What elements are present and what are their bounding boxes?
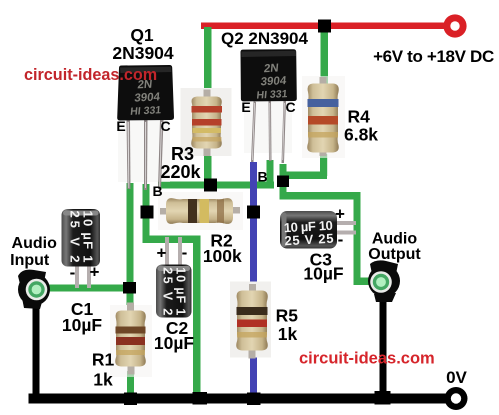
svg-text:+: +	[90, 263, 100, 282]
svg-text:circuit-ideas.com: circuit-ideas.com	[24, 66, 157, 84]
wire: +V supply rail (red)	[201, 23, 455, 30]
svg-text:Output: Output	[368, 246, 421, 263]
svg-text:6.8k: 6.8k	[344, 125, 378, 145]
wire: output jack to ground (black)	[380, 297, 387, 395]
svg-text:10µF: 10µF	[154, 333, 195, 353]
wire: riser to Q2 base lead	[267, 160, 274, 188]
wire: junction down then right to C3 plus, down to output jack	[280, 185, 287, 199]
svg-text:-: -	[70, 263, 76, 282]
svg-text:E: E	[116, 118, 125, 134]
resistor R4 6.8k (vertical)	[302, 76, 345, 158]
audio input jack	[18, 270, 50, 309]
resistor R2 100k (horizontal)	[158, 192, 243, 230]
wire: Q1 emitter down to C1/R1 junction	[127, 183, 134, 288]
junction C1 / R1 / input node	[123, 282, 136, 294]
wire: node B down then right to C2 plus lead	[143, 212, 150, 243]
svg-text:25 V 25: 25 V 25	[284, 231, 334, 249]
svg-text:Input: Input	[10, 252, 50, 269]
svg-text:Audio: Audio	[372, 230, 418, 247]
svg-text:1k: 1k	[278, 324, 298, 344]
audio output jack	[368, 260, 400, 302]
junction R2 right on blue wire	[247, 206, 260, 219]
svg-text:+6V to +18V DC: +6V to +18V DC	[373, 47, 494, 66]
svg-text:B: B	[257, 169, 267, 185]
svg-text:3904: 3904	[134, 91, 161, 104]
wire: junction right then up to R4 bottom	[286, 172, 327, 180]
svg-text:HI 331: HI 331	[256, 88, 288, 102]
wire: green drop from rail junction to R4 top	[321, 27, 329, 84]
junction node B (Q1 base / R2 left)	[141, 206, 154, 219]
capacitor C1 10uF (vertical electrolytic)	[62, 209, 101, 288]
junction on supply rail above R4	[318, 20, 331, 33]
+V terminal (red ring)	[443, 14, 466, 37]
transistor Q2 (2N3904, TO-92 photo style)	[241, 49, 297, 163]
wire: junction to R1 top stub	[127, 288, 134, 305]
wire: R1 bottom to ground	[127, 371, 134, 395]
svg-text:-: -	[182, 243, 188, 262]
svg-text:E: E	[241, 99, 250, 115]
junction C2 wire at ground	[193, 392, 208, 405]
svg-text:circuit-ideas.com: circuit-ideas.com	[299, 350, 435, 368]
svg-text:R1: R1	[92, 350, 115, 370]
svg-text:C: C	[160, 118, 170, 134]
junction output wire at ground	[375, 391, 391, 405]
svg-text:R3: R3	[171, 144, 194, 164]
svg-text:220k: 220k	[160, 162, 201, 182]
svg-text:Audio: Audio	[12, 235, 58, 252]
svg-text:C: C	[285, 99, 295, 115]
transistor Q1 (2N3904, TO-92 photo style)	[117, 65, 174, 190]
svg-text:-: -	[338, 230, 344, 249]
resistor R5 1k (vertical)	[230, 282, 271, 359]
svg-text:+: +	[157, 244, 167, 263]
svg-text:Q2 2N3904: Q2 2N3904	[221, 29, 308, 48]
0V terminal (black ring)	[445, 387, 468, 410]
wire: input jack to ground (black)	[33, 303, 40, 395]
wire: audio input to C1/R1 junction	[40, 285, 129, 292]
junction R1 at ground	[124, 393, 137, 406]
svg-text:1k: 1k	[93, 370, 113, 390]
wire: C2 minus side long drop to ground	[193, 236, 201, 398]
svg-text:2N3904: 2N3904	[112, 43, 174, 63]
svg-text:10 µF 1: 10 µF 1	[174, 267, 188, 315]
junction at R3 bottom	[204, 179, 217, 192]
svg-text:2N: 2N	[263, 62, 279, 75]
wire: Q1 base down to node B junction	[143, 184, 150, 212]
resistor R3 220k (vertical)	[181, 88, 232, 156]
wire: Q2 collector stub to junction	[280, 164, 287, 178]
svg-text:3904: 3904	[260, 75, 287, 88]
svg-text:Q1: Q1	[130, 25, 154, 45]
capacitor C2 10uF (vertical electrolytic)	[156, 237, 192, 318]
wire: R3 bottom stub	[204, 148, 212, 185]
svg-text:HI 331: HI 331	[130, 104, 162, 118]
junction at Q2 collector	[277, 176, 289, 188]
svg-text:+: +	[335, 205, 345, 224]
capacitor C3 10uF (horizontal electrolytic)	[280, 211, 356, 249]
junction blue wire at ground	[247, 393, 261, 406]
svg-text:0V: 0V	[446, 368, 467, 387]
svg-text:10µF: 10µF	[303, 264, 344, 284]
wire: ground bus bar	[29, 394, 451, 404]
svg-text:R5: R5	[276, 306, 299, 326]
wire: Q2 emitter blue drop through R5 to ground	[250, 162, 257, 398]
wire: Q1 collector horizontal line to R3 bottom and Q2 base	[158, 182, 274, 189]
svg-text:10µF: 10µF	[62, 315, 103, 335]
svg-text:R4: R4	[348, 107, 371, 127]
svg-text:100k: 100k	[203, 246, 242, 266]
svg-text:B: B	[152, 183, 162, 199]
resistor R1 1k (vertical)	[110, 303, 152, 378]
wire: green drop from rail to R3 top	[204, 27, 212, 95]
